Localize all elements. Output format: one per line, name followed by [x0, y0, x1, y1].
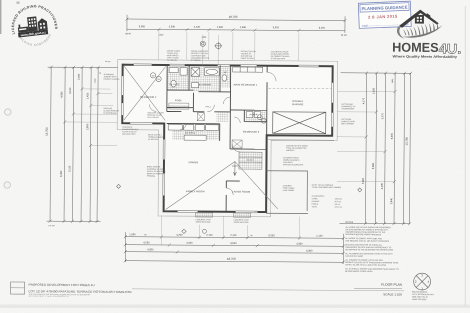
right dimension chains: [337, 71, 413, 225]
bedroom3 robe box: [232, 140, 242, 148]
porch outline bottom right: [266, 171, 308, 214]
hall bottom wall: [167, 110, 230, 112]
bottom dimension chains: [124, 215, 345, 264]
bedroom 2 ceiling diagonals: [124, 66, 166, 120]
sd circle top: [200, 41, 222, 50]
concrete step right below wall: [234, 213, 251, 224]
svg-text:LAUNDRY: LAUNDRY: [249, 113, 260, 116]
svg-text:4,170: 4,170: [362, 97, 365, 104]
svg-text:SILL 1200 AFL: SILL 1200 AFL: [147, 116, 159, 119]
hall linen cupboard: [197, 113, 204, 121]
svg-text:90 100: 90 100: [341, 35, 347, 37]
svg-text:HALL: HALL: [206, 105, 212, 108]
svg-text:4,230: 4,230: [381, 182, 384, 189]
planning guidance stamp: [358, 1, 411, 28]
svg-text:AT 900 CRS MAX: AT 900 CRS MAX: [271, 57, 286, 60]
svg-text:3,910: 3,910: [273, 26, 280, 29]
robe walls: [167, 92, 194, 111]
leader lines from top symbols: [203, 35, 219, 66]
living top wall: [226, 180, 239, 182]
svg-text:BY OWNER: BY OWNER: [191, 60, 201, 62]
family room raking ceiling diagonals: [166, 161, 278, 210]
fern fronds: [403, 21, 443, 38]
svg-text:5,660: 5,660: [362, 177, 365, 184]
laundry fixtures: [246, 112, 261, 118]
hall/bedroom3 wall: [229, 110, 231, 149]
svg-text:140 120: 140 120: [48, 225, 54, 227]
svg-text:3,263: 3,263: [268, 234, 275, 237]
kitchen tiled floor: [172, 126, 219, 141]
bathroom bottom wall: [198, 91, 230, 93]
svg-text:FRAMING: FRAMING: [147, 175, 156, 178]
svg-text:1,430: 1,430: [86, 92, 89, 99]
top extension lines to house: [159, 29, 299, 60]
svg-text:NZS 3604 SPEC: NZS 3604 SPEC: [122, 134, 136, 136]
svg-text:4,400: 4,400: [186, 242, 193, 245]
raking arrow at apex: [232, 161, 238, 175]
svg-text:EN SUITE: EN SUITE: [169, 84, 180, 86]
kitchen bench and appliances: [168, 125, 219, 141]
diamond symbol left: [117, 184, 121, 188]
svg-text:4,230: 4,230: [143, 241, 150, 244]
svg-text:FIXED TO WALL: FIXED TO WALL: [241, 57, 255, 60]
svg-text:FLOOR PLAN: FLOOR PLAN: [381, 283, 403, 287]
svg-text:BEDROOM 2: BEDROOM 2: [140, 96, 157, 99]
svg-text:6,400: 6,400: [391, 132, 394, 139]
svg-text:6,490: 6,490: [60, 170, 63, 177]
svg-text:NOTES: NOTES: [346, 222, 354, 224]
svg-text:BE 2200 ABOVE FLOOR LEVEL: BE 2200 ABOVE FLOOR LEVEL: [345, 270, 373, 273]
svg-text:Where Quality Meets Affordabil: Where Quality Meets Affordability: [393, 54, 458, 58]
exterior walls: [122, 65, 333, 213]
svg-text:1,480: 1,480: [392, 79, 394, 84]
svg-text:HAMILTON 3200: HAMILTON 3200: [412, 298, 426, 301]
svg-text:2,540: 2,540: [169, 26, 176, 29]
svg-text:6,360: 6,360: [306, 250, 313, 253]
svg-text:90: 90: [100, 72, 102, 74]
main bedroom bottom wall: [230, 109, 266, 111]
svg-text:MAIN BEDROOM 1: MAIN BEDROOM 1: [234, 83, 258, 86]
svg-text:13,750: 13,750: [45, 127, 49, 136]
svg-text:SAFETY GLASS TO ALL LOW LEVEL: SAFETY GLASS TO ALL LOW LEVEL GLAZING: [345, 263, 386, 266]
bottom scanner shadow band: [0, 305, 470, 308]
svg-text:3,350: 3,350: [139, 25, 146, 28]
smoke detector circles bedroom wing: [150, 73, 161, 82]
svg-text:6,680: 6,680: [372, 162, 375, 169]
top overall dimension line 18750: [127, 19, 345, 21]
bedroom3 bottom wall: [230, 148, 266, 150]
porch slab line below garage: [268, 139, 334, 141]
svg-text:ROBE: ROBE: [175, 100, 182, 102]
svg-text:BEDROOM 3: BEDROOM 3: [243, 131, 260, 134]
svg-text:1,600: 1,600: [217, 26, 224, 29]
svg-text:LIVING ROOM: LIVING ROOM: [232, 190, 250, 193]
svg-text:5,170: 5,170: [381, 112, 384, 119]
svg-text:4,350: 4,350: [147, 248, 154, 251]
svg-text:2,090: 2,090: [78, 73, 81, 80]
svg-text:WC: WC: [224, 72, 228, 74]
svg-text:2,840: 2,840: [390, 197, 393, 204]
bedroom2 right wall: [166, 65, 168, 111]
chimney stub: [427, 13, 431, 18]
title block rule: [132, 289, 404, 291]
punch hole upper: [5, 109, 11, 115]
window segments on walls: [122, 65, 333, 213]
svg-text:1,200: 1,200: [95, 79, 97, 84]
svg-text:4,200: 4,200: [176, 234, 183, 237]
svg-text:18,750: 18,750: [229, 15, 238, 19]
notes block: [345, 222, 399, 273]
top second dimension chain: [127, 29, 345, 31]
svg-text:1,650: 1,650: [129, 233, 136, 236]
main bedroom wardrobe: [233, 67, 263, 72]
wc tiled floor: [221, 67, 230, 88]
svg-text:231.1 m2: 231.1 m2: [335, 207, 343, 209]
svg-text:FLOOR AREAS: FLOOR AREAS: [312, 195, 326, 198]
svg-text:2,690: 2,690: [86, 123, 89, 130]
garage truss dashed line: [269, 87, 332, 89]
title block checkbox: [10, 282, 24, 294]
door swing arcs: [149, 71, 276, 195]
homes4u logo: [392, 9, 462, 59]
svg-text:1,480: 1,480: [240, 26, 247, 29]
strip partition bathroom/wc: [219, 65, 221, 91]
right scanner edge line: [465, 6, 466, 306]
diamond symbol bottom: [182, 229, 186, 233]
kitchen bench back wall: [167, 122, 220, 124]
svg-text:2,120: 2,120: [206, 234, 213, 237]
kitchen right wall: [219, 124, 221, 141]
diamond symbol right: [358, 188, 362, 192]
top-left scanner edge mark: [0, 0, 1, 34]
svg-text:AT 600 CRS: AT 600 CRS: [148, 138, 159, 141]
svg-text:NZS 3604:2011 AND ALL RELEVANT: NZS 3604:2011 AND ALL RELEVANT STANDARDS: [345, 239, 389, 242]
svg-text:SLAB 100MM: SLAB 100MM: [283, 189, 295, 192]
svg-text:BE NOTIFIED TO THE DESIGNER FO: BE NOTIFIED TO THE DESIGNER FOR VERIFICA…: [345, 248, 393, 251]
svg-text:2,120: 2,120: [194, 26, 201, 29]
svg-text:ENTRY: ENTRY: [247, 160, 255, 162]
svg-text:G12 AND G13 NZBC: G12 AND G13 NZBC: [345, 255, 363, 258]
svg-text:DINING: DINING: [189, 161, 199, 164]
svg-text:FAMILY ROOM: FAMILY ROOM: [186, 190, 205, 193]
banner www.dbh.govt.nz: [18, 30, 48, 38]
svg-text:90: 90: [144, 234, 146, 236]
bathroom fixtures: [169, 68, 227, 88]
roof: [399, 9, 439, 27]
entry steps tiled: [239, 152, 262, 169]
bathroom tiled floor: [190, 67, 220, 92]
svg-text:100 90: 100 90: [125, 33, 131, 35]
annotation text blocks (placeholder): [103, 49, 357, 209]
svg-text:3,540: 3,540: [230, 242, 237, 245]
svg-text:KITCHEN: KITCHEN: [185, 133, 196, 135]
svg-text:18,750: 18,750: [227, 257, 236, 261]
svg-text:TO CEILING: TO CEILING: [167, 60, 178, 62]
main bedroom left wall: [229, 65, 231, 109]
svg-text:EXPOSED AGGREGATE: EXPOSED AGGREGATE: [283, 163, 304, 166]
svg-text:BATHROOM: BATHROOM: [199, 83, 212, 86]
licensed building practitioner stamp: [8, 2, 60, 50]
svg-text:DOUBLE GLAZING: DOUBLE GLAZING: [104, 78, 120, 81]
svg-text:3,510: 3,510: [69, 87, 72, 94]
ensuite tiled floor: [167, 67, 188, 90]
svg-text:1,320: 1,320: [159, 34, 164, 36]
laundry tiled floor: [245, 111, 266, 121]
ensuite strip bottom wall: [167, 89, 193, 91]
left dimension chains: [47, 66, 118, 224]
smoke detector circles hall: [257, 115, 266, 123]
svg-text:STORMWATER: STORMWATER: [341, 107, 354, 110]
robe shelves: [169, 103, 189, 109]
svg-text:4,360: 4,360: [296, 242, 303, 245]
svg-text:100MM MAX RISE: 100MM MAX RISE: [196, 221, 212, 224]
strip partition ensuite/bathroom: [188, 65, 190, 90]
laundry walls: [244, 110, 267, 122]
svg-text:GARAGE: GARAGE: [312, 200, 321, 203]
svg-text:TOTAL: TOTAL: [312, 205, 318, 208]
interior walls: [166, 65, 267, 212]
svg-text:2,110: 2,110: [230, 234, 237, 237]
svg-text:SCALE 1:100: SCALE 1:100: [383, 292, 402, 296]
living/family divider: [225, 181, 227, 212]
svg-text:GARAGE: GARAGE: [292, 103, 304, 106]
svg-text:13,750: 13,750: [405, 137, 409, 146]
svg-text:TO BE CONFIRMED WITH OWNER: TO BE CONFIRMED WITH OWNER: [312, 187, 342, 189]
garage left wall: [266, 66, 269, 135]
svg-text:2,630: 2,630: [372, 87, 375, 94]
svg-text:1,000: 1,000: [201, 37, 206, 39]
svg-text:5,110: 5,110: [68, 165, 71, 172]
svg-text:3,010: 3,010: [319, 27, 326, 30]
north/revision circle: [414, 273, 431, 290]
svg-text:DESIGNER BEFORE WORK PROCEEDS: DESIGNER BEFORE WORK PROCEEDS: [345, 234, 381, 236]
svg-text:100MM MAX RISE: 100MM MAX RISE: [234, 221, 250, 224]
svg-text:WITH OPENER: WITH OPENER: [341, 123, 354, 125]
room labels: [140, 71, 304, 194]
left swoosh: [397, 26, 405, 39]
svg-text:HOMES: HOMES: [392, 40, 439, 55]
svg-text:TIME: TIME: [361, 24, 368, 28]
svg-text:4,580: 4,580: [60, 91, 63, 98]
svg-text:HARDFILL: HARDFILL: [286, 149, 295, 152]
house body with windows: [415, 15, 424, 24]
svg-text:1,120: 1,120: [316, 235, 323, 238]
svg-text:LOT 12 DP 478490 PATATERE TERR: LOT 12 DP 478490 PATATERE TERRACE ROTOKA…: [28, 289, 131, 294]
garage door panel with cross: [273, 112, 326, 134]
svg-text:PROPOSED DEVELOPMENT FOR HOMES: PROPOSED DEVELOPMENT FOR HOMES 4U: [29, 283, 95, 287]
designer info: [412, 292, 435, 302]
svg-text:90: 90: [250, 235, 252, 237]
buildings silhouette: [17, 15, 48, 33]
circle symbol bottom: [202, 229, 206, 233]
eave outline: [117, 60, 338, 218]
concrete step left below wall: [196, 213, 213, 224]
punch hole lower: [4, 182, 10, 188]
svg-text:40 120: 40 120: [105, 61, 110, 63]
wc2 tiled cell: [216, 112, 228, 122]
